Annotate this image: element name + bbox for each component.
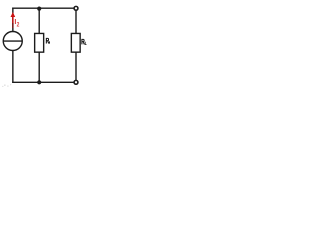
wire top horizontal [12, 7, 73, 9]
wire left branch upper [12, 8, 14, 32]
label RL subscript L [85, 42, 86, 45]
label RL (drawn R glyph) [82, 39, 84, 44]
terminal bottom-right (open circle) [74, 80, 78, 84]
wire middle branch upper [38, 8, 40, 34]
label Ri subscript i [49, 41, 51, 43]
current source Q (circle with horizontal bar) [3, 32, 22, 51]
junction node bottom (middle/bottom wire) [37, 80, 41, 84]
svg-text:2: 2 [17, 22, 20, 29]
wire bottom horizontal [12, 81, 73, 83]
wire right branch lower [75, 52, 77, 80]
background [0, 0, 90, 90]
wire right branch upper [75, 11, 77, 34]
terminal top-right (open circle) [74, 6, 78, 10]
current arrow I2 (red, pointing up along left branch) [11, 12, 16, 28]
jpeg speckles bottom-left (faint) [2, 84, 11, 87]
label Ri (drawn R glyph) [46, 38, 48, 43]
wire left branch lower [12, 51, 14, 83]
resistor RL box [71, 33, 80, 52]
junction node top (middle/top wire) [37, 7, 41, 11]
resistor Ri box [35, 33, 44, 52]
wire middle branch lower [38, 52, 40, 83]
